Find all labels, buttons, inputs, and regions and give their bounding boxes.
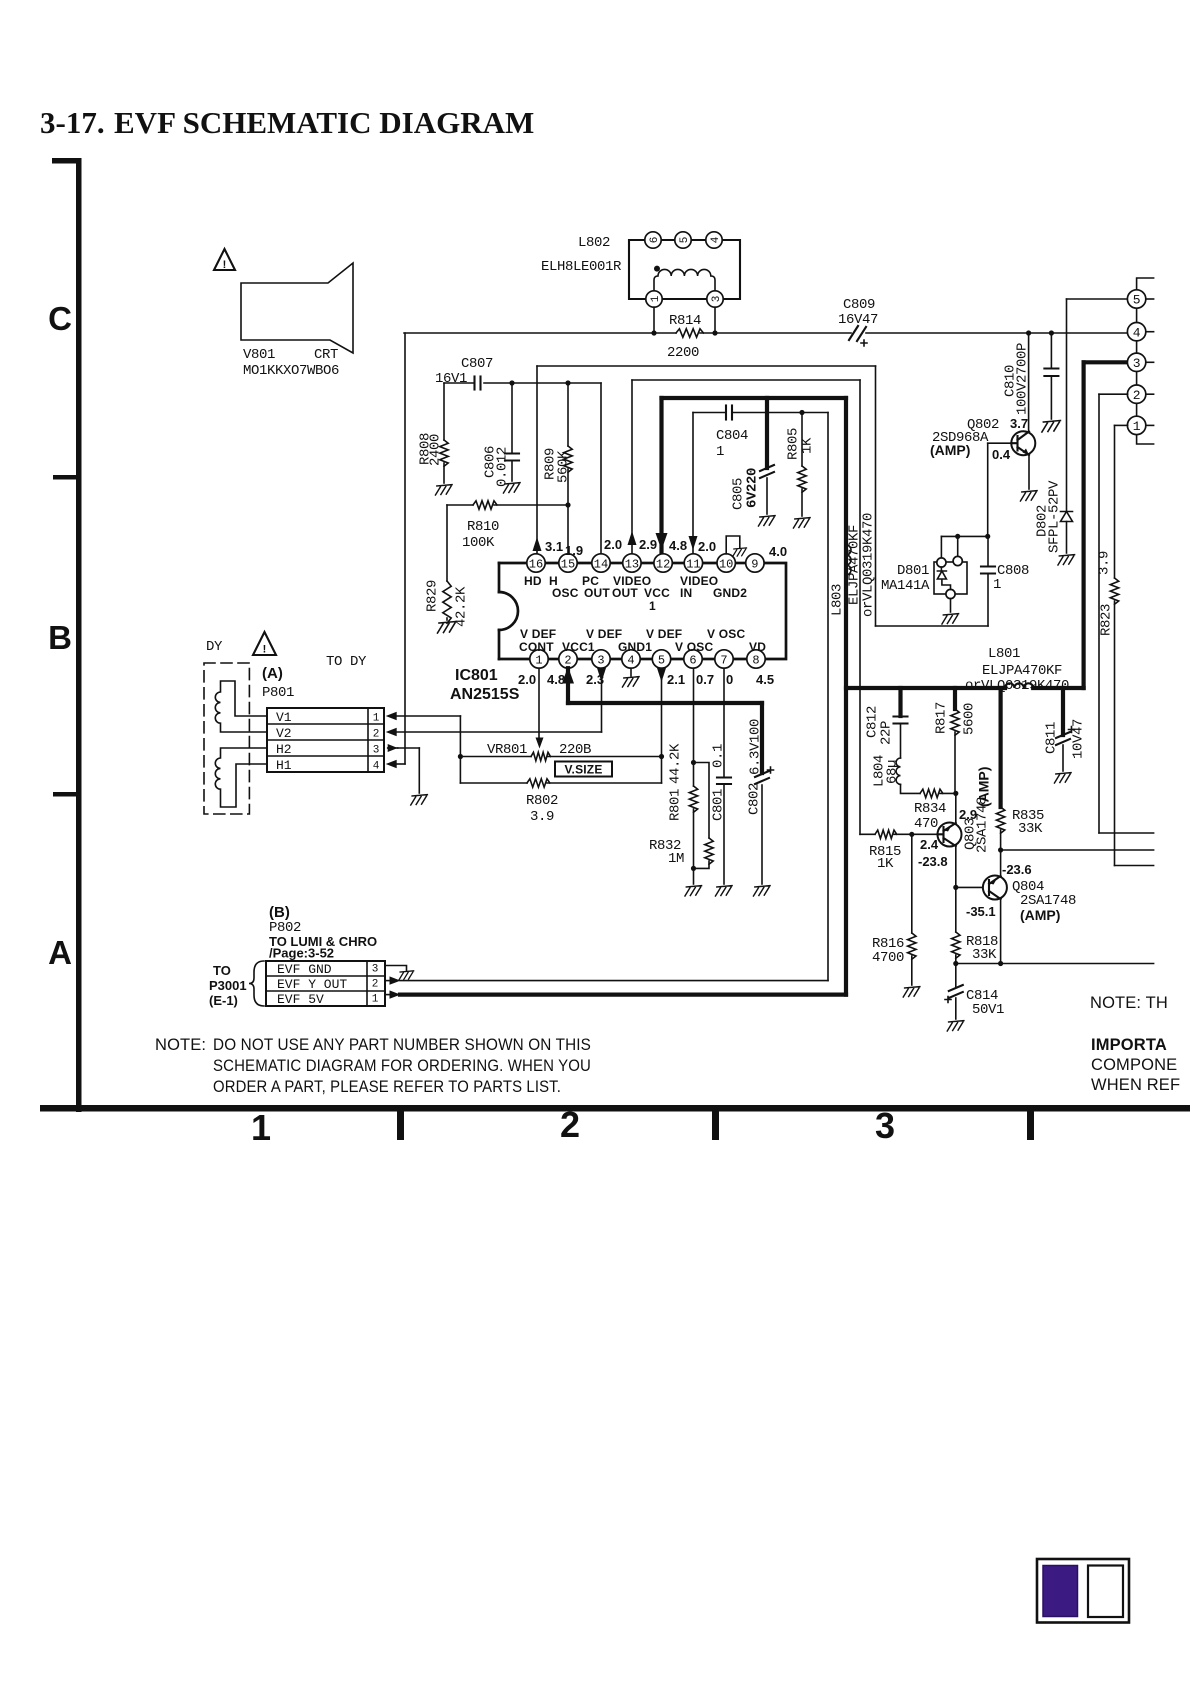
svg-text:DO NOT USE ANY PART NUMBER SHO: DO NOT USE ANY PART NUMBER SHOWN ON THIS [213,1036,591,1054]
svg-text:1: 1 [372,994,379,1006]
svg-text:R829: R829 [425,580,441,612]
svg-text:V801: V801 [243,347,275,363]
svg-text:1: 1 [716,444,724,460]
svg-text:3: 3 [875,1105,895,1146]
wire connector 1 / resistor R823 [1115,424,1128,426]
svg-text:0: 0 [726,672,733,687]
svg-text:16: 16 [529,557,543,571]
svg-text:2.9: 2.9 [959,807,977,822]
svg-text:5600: 5600 [962,703,978,735]
brace P802 [249,961,264,1006]
capacitor C801 [717,776,731,778]
svg-text:1: 1 [993,577,1001,593]
svg-text:1: 1 [373,713,380,725]
svg-text:SFPL-52PV: SFPL-52PV [1047,480,1063,553]
svg-text:P801: P801 [262,685,294,701]
connector pin 4 [1127,323,1145,341]
svg-text:560K: 560K [556,450,572,483]
ground D801 [950,599,952,612]
svg-text:220B: 220B [559,742,591,758]
wire thick pin2 VCC1 [566,668,570,703]
svg-text:3: 3 [711,296,723,303]
transistor Q804 [953,885,958,890]
wire main horizontal [404,332,676,334]
svg-text:B: B [48,619,72,656]
svg-text:OSC: OSC [552,586,579,600]
svg-text:R823: R823 [1099,604,1115,636]
svg-text:SCHEMATIC DIAGRAM FOR ORDERING: SCHEMATIC DIAGRAM FOR ORDERING. WHEN YOU [213,1057,591,1075]
svg-text:4.5: 4.5 [756,672,774,687]
svg-text:IN: IN [680,586,692,600]
svg-text:100K: 100K [462,535,495,551]
svg-text:4: 4 [710,236,722,243]
ground D802 [1058,555,1075,565]
svg-text:HD: HD [524,574,542,588]
legend box white [1088,1566,1123,1618]
resistor R810 [447,504,473,506]
svg-text:V DEF: V DEF [520,627,556,641]
svg-text:V2: V2 [276,726,292,741]
wire thick bus -24V [846,686,1005,690]
wire pin14 net [444,382,474,384]
ground H2 [411,795,428,805]
capacitor C804 [725,406,727,420]
svg-text:2400: 2400 [428,434,444,466]
svg-text:C801: C801 [711,789,727,821]
svg-text:6: 6 [689,653,696,667]
ground C802 [753,886,770,896]
svg-text:14: 14 [594,557,608,571]
V.SIZE box [555,762,612,777]
svg-text:4.0: 4.0 [769,544,787,559]
svg-text:8: 8 [752,653,759,667]
svg-text:0.012: 0.012 [495,447,511,487]
svg-text:R817: R817 [934,702,950,734]
svg-text:MA141A: MA141A [881,578,930,594]
svg-text:10: 10 [719,557,733,571]
svg-text:0.7: 0.7 [696,672,714,687]
wire pin13 net [631,380,633,555]
svg-text:VCC1: VCC1 [562,640,595,654]
ground R829 [438,622,457,634]
svg-text:A: A [48,934,72,971]
IC801 pin 14 [592,554,610,572]
capacitor C812 [898,688,902,716]
ground R816 [903,987,920,997]
ground R801 [685,886,702,896]
svg-text:H2: H2 [276,742,292,757]
IC801 pin 3 [592,650,610,668]
svg-text:NOTE: TH: NOTE: TH [1090,994,1168,1012]
wire EVF GND to ground [385,966,407,972]
wire thick bus to connector 3 [1081,362,1085,688]
svg-text:3: 3 [373,745,380,757]
IC801 pin 16 [527,554,545,572]
ground R805 [793,518,810,528]
wire H2 to ground [388,747,398,749]
svg-text:2.1: 2.1 [667,672,685,687]
svg-text:V1: V1 [276,710,292,725]
svg-text:TO DY: TO DY [326,654,367,670]
svg-text:!: ! [223,259,227,271]
svg-text:13: 13 [625,557,639,571]
svg-text:2: 2 [372,979,379,991]
svg-text:CRT: CRT [314,347,338,363]
IC801 pin 2 [559,650,577,668]
svg-text:R834: R834 [914,801,946,817]
resistor R801 [689,786,697,812]
svg-text:6: 6 [649,237,661,244]
IC801 pin 11 [684,554,702,572]
svg-text:6.3V100: 6.3V100 [748,719,764,775]
warning triangle 2 [253,632,276,655]
svg-text:4.8: 4.8 [669,538,687,553]
svg-text:3.9: 3.9 [1097,551,1113,575]
resistor R818 [955,887,957,932]
coil DY vertical 1 [215,681,267,732]
svg-text:4: 4 [1133,325,1141,340]
svg-text:2200: 2200 [667,345,699,361]
svg-text:2.0: 2.0 [518,672,536,687]
ground pin10 GND2 [726,536,740,554]
svg-text:1: 1 [251,1107,271,1148]
IC801 pin 15 [559,554,577,572]
resistor R805 [801,413,803,467]
resistor R815 [875,830,897,838]
svg-text:12: 12 [656,557,670,571]
wire C808 to Q802 base node [987,536,989,566]
coil L802 [629,240,740,299]
svg-text:5: 5 [1133,293,1141,308]
svg-text:16V47: 16V47 [838,312,878,328]
IC801 pin 12 [654,554,672,572]
svg-text:4.8: 4.8 [547,672,565,687]
svg-text:11: 11 [686,557,700,571]
svg-text:WHEN REF: WHEN REF [1091,1076,1180,1094]
transistor Q802 [1026,330,1031,335]
connector pin 2 [1127,385,1145,403]
svg-text:(B): (B) [269,904,290,921]
svg-text:2: 2 [1133,388,1141,403]
resistor R809 [567,383,569,446]
svg-text:ELH8LE001R: ELH8LE001R [541,259,622,275]
IC801 pin 8 [747,650,765,668]
svg-text:0.4: 0.4 [992,447,1011,462]
IC801 pin 4 [622,650,640,668]
svg-text:C808: C808 [997,563,1029,579]
ground R808 [435,485,452,495]
svg-text:R810: R810 [467,519,499,535]
svg-text:3.1: 3.1 [545,539,563,554]
svg-text:C807: C807 [461,356,493,372]
svg-text:50V1: 50V1 [972,1002,1004,1018]
svg-text:R802: R802 [526,793,558,809]
svg-text:16V1: 16V1 [435,371,467,387]
svg-text:orVLQ0319K470: orVLQ0319K470 [861,513,877,617]
svg-text:7: 7 [720,653,727,667]
resistor R817 [953,688,957,709]
legend box purple [1043,1566,1078,1617]
svg-text:EVF Y OUT: EVF Y OUT [277,977,347,992]
bottom column band line [40,1105,1190,1112]
wire main to P801 H1 [404,333,406,764]
connector pin 5 [1127,290,1145,308]
capacitor C814 [955,964,957,988]
svg-text:H1: H1 [276,758,292,773]
svg-text:2.0: 2.0 [604,537,622,552]
wire connector5 to D802 [1067,298,1128,300]
svg-text:9: 9 [751,557,758,571]
wire L802 to main [653,307,655,333]
wire thick pin12 net [662,396,847,400]
svg-text:COMPONE: COMPONE [1091,1056,1177,1074]
svg-text:2: 2 [560,1104,580,1145]
svg-text:EVF 5V: EVF 5V [277,992,324,1007]
coil L803 [846,545,851,575]
svg-text:V DEF: V DEF [586,627,622,641]
svg-text:V OSC: V OSC [675,640,713,654]
connector pin 1 [1127,416,1145,434]
capacitor C805 [765,398,769,468]
svg-text:1: 1 [1133,419,1141,434]
IC801 pin 13 [623,554,641,572]
svg-text:EVF SCHEMATIC DIAGRAM: EVF SCHEMATIC DIAGRAM [114,105,534,140]
svg-text:33K: 33K [1018,821,1043,837]
wire thick EVF 5V [400,992,846,996]
svg-text:R814: R814 [669,313,701,329]
wire pin1 to VR801 wiper [538,668,540,739]
resistor R834 [901,784,921,793]
ground Q802 [1020,491,1037,501]
svg-text:2.4: 2.4 [920,837,939,852]
svg-text:1K: 1K [877,856,894,872]
svg-text:DY: DY [206,639,223,655]
svg-text:1: 1 [535,653,542,667]
svg-text:4: 4 [373,761,380,773]
IC801 pin 7 [715,650,733,668]
wire pin5 to VR801 [661,668,663,783]
svg-text:15: 15 [561,557,575,571]
wire node -23.6 [1001,849,1154,851]
wire pin11 net [693,412,726,414]
resistor R829 [446,505,448,581]
resistor R832 [694,763,710,839]
svg-text:GND2: GND2 [713,586,747,600]
svg-text:VCC: VCC [644,586,670,600]
svg-text:1: 1 [649,599,656,613]
ground C814 [947,1021,964,1031]
svg-text:TO: TO [213,963,231,978]
svg-text:68µ: 68µ [885,760,901,784]
svg-text:VR801: VR801 [487,742,527,758]
svg-text:L801: L801 [988,646,1020,662]
svg-text:5: 5 [679,237,691,244]
legend box outer [1037,1559,1129,1623]
connector pin 3 [1127,353,1145,371]
coil L804 [896,758,900,784]
svg-text:ELJPA470KF: ELJPA470KF [982,663,1062,679]
capacitor C810 [1049,330,1054,335]
svg-text:C804: C804 [716,428,748,444]
svg-text:C: C [48,300,72,337]
svg-text:3: 3 [372,964,379,976]
svg-text:1M: 1M [668,851,684,867]
svg-text:0.1: 0.1 [711,744,727,768]
ground C811 [1054,773,1071,783]
svg-text:3: 3 [597,653,604,667]
svg-text:V DEF: V DEF [646,627,682,641]
wire pin16 HD net [537,365,876,367]
svg-text:4700: 4700 [872,950,904,966]
connector P801 [267,708,384,772]
resistor R808 [443,383,445,440]
connector circles right [1137,278,1154,444]
svg-text:IC801: IC801 [455,667,498,684]
ground C806 [503,483,520,493]
svg-text:1K: 1K [800,437,816,454]
svg-text:-23.6: -23.6 [1002,862,1032,877]
svg-text:10V47: 10V47 [1071,719,1087,759]
wire Q802 base [987,443,989,536]
transistor Q803 [938,823,962,847]
svg-text:NOTE:: NOTE: [155,1036,206,1054]
diode D802 [1061,512,1073,522]
svg-text:EVF GND: EVF GND [277,962,332,977]
svg-text:3.7: 3.7 [1010,416,1028,431]
wire D801 loop left/bottom [875,366,877,626]
wire D801 node [941,535,987,537]
svg-text:CONT: CONT [519,640,554,654]
svg-text:3: 3 [1133,356,1141,371]
ground C810 [1042,421,1061,433]
svg-text:/Page:3-52: /Page:3-52 [269,946,334,961]
svg-text:IMPORTA: IMPORTA [1091,1036,1167,1054]
ground C801 [715,886,732,896]
capacitor C807 [473,377,475,390]
svg-text:!: ! [263,644,267,656]
potentiometer VR801 [460,756,531,758]
wire pin3 to P801 V2 [601,668,603,732]
svg-text:2: 2 [373,729,380,741]
wire C804 right to EVF Y OUT [732,412,828,414]
svg-text:GND1: GND1 [618,640,652,654]
svg-text:L802: L802 [578,235,610,251]
capacitor C808 [981,565,995,567]
wire pin7 C801 [723,668,725,777]
svg-text:6V220: 6V220 [745,468,761,508]
svg-text:22P: 22P [879,721,895,745]
svg-text:470: 470 [914,816,938,832]
svg-text:(E-1): (E-1) [209,993,238,1008]
diode module D801 [934,562,967,594]
svg-text:(AMP): (AMP) [930,442,970,458]
svg-text:1.9: 1.9 [565,543,583,558]
IC801 pin 1 [530,650,548,668]
svg-text:44.2K: 44.2K [668,743,684,784]
svg-text:D801: D801 [897,563,929,579]
IC801 pin 10 [717,554,735,572]
IC801 pin 6 [684,650,702,668]
capacitor C811 [1061,688,1065,735]
wire V1 to VR801 node [397,715,461,717]
svg-text:4: 4 [627,653,634,667]
connector P802 [266,961,385,1006]
svg-text:V OSC: V OSC [707,627,745,641]
wire thick vertical right [844,398,848,995]
wire connector 2 [1099,393,1128,395]
capacitor C809 [849,326,866,341]
resistor R816 [911,834,913,933]
svg-text:P3001: P3001 [209,978,247,993]
svg-text:100V2700P: 100V2700P [1015,343,1031,415]
resistor R835 [998,688,1002,807]
warning triangle 1 [214,249,235,270]
IC801 pin 9 [746,554,764,572]
svg-text:C811: C811 [1044,722,1060,754]
CRT V801 [241,263,353,353]
capacitor C802 [760,703,764,773]
svg-text:AN2515S: AN2515S [450,686,520,703]
IC801 body [756,563,786,659]
wire pin6 R801 [693,668,695,786]
svg-text:R801: R801 [668,789,684,821]
svg-text:OUT: OUT [612,586,638,600]
svg-text:5: 5 [658,653,665,667]
svg-text:VD: VD [749,640,766,654]
wire output node [956,963,1154,965]
coil DY vertical 2 [215,748,267,807]
svg-text:MO1KKXO7WBO6: MO1KKXO7WBO6 [243,363,339,379]
coil L801 [1033,686,1083,690]
svg-text:-23.8: -23.8 [918,854,948,869]
svg-text:(A): (A) [262,665,283,682]
ground pin4 GND1 [630,668,632,676]
svg-text:ORDER A PART, PLEASE REFER TO: ORDER A PART, PLEASE REFER TO PARTS LIST… [213,1078,561,1096]
svg-text:2.9: 2.9 [639,537,657,552]
svg-text:C802: C802 [747,783,763,815]
svg-text:C809: C809 [843,297,875,313]
page border row band line [76,158,82,1112]
svg-text:1: 1 [650,295,662,302]
svg-text:-35.1: -35.1 [966,904,996,919]
svg-text:L803: L803 [830,584,846,616]
svg-text:33K: 33K [972,947,997,963]
ground C805 [758,516,775,526]
svg-text:3.9: 3.9 [530,809,554,825]
svg-text:V.SIZE: V.SIZE [564,763,602,777]
svg-text:3-17.: 3-17. [40,105,105,140]
IC801 pin 5 [652,650,670,668]
resistor R814 [676,329,703,337]
svg-text:2.0: 2.0 [698,539,716,554]
svg-text:OUT: OUT [584,586,610,600]
svg-text:(AMP): (AMP) [976,767,992,807]
svg-text:(AMP): (AMP) [1020,907,1060,923]
deflection yoke DY [204,663,249,814]
capacitor C806 [511,383,513,453]
svg-text:orVLQ0319K470: orVLQ0319K470 [965,678,1069,694]
svg-text:2: 2 [564,653,571,667]
resistor R802 [460,782,527,784]
